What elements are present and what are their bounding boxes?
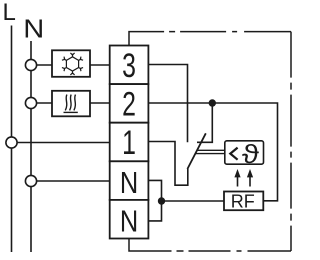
wire heating box to terminal 2: [90, 102, 110, 104]
heating waves icon: [64, 95, 78, 113]
mechanical link to thermostat: [195, 150, 225, 153]
wire L rail: [11, 26, 13, 253]
terminal block cell 3: [110, 46, 149, 85]
terminal block cell N1: [110, 161, 149, 200]
thermostat label: [230, 148, 237, 160]
wire terminal 3 to switch contact a: [148, 65, 187, 143]
junction dot on terminal 2 wire: [209, 99, 216, 106]
svg-text:N: N: [120, 166, 138, 201]
wire N rail: [30, 41, 32, 252]
wire terminal 1 to switch common: [148, 142, 187, 186]
wire N to cooling box: [31, 64, 52, 66]
svg-text:1: 1: [122, 125, 136, 163]
RF receiver box: [224, 192, 263, 211]
svg-text:L: L: [3, 0, 16, 26]
svg-text:N: N: [23, 14, 44, 43]
svg-text:RF: RF: [231, 192, 255, 212]
load box heating: [52, 91, 90, 117]
terminal label 3: [122, 47, 136, 85]
terminal label 1: [122, 125, 136, 163]
wire L to terminal 1: [12, 142, 111, 144]
terminal label N2: [120, 204, 138, 239]
terminal block cell 2: [110, 84, 149, 123]
device boundary dashed bottom: [129, 239, 291, 252]
terminal label N1: [120, 166, 138, 201]
thermostat box U1: [225, 141, 264, 164]
control arrow 1: [234, 169, 240, 187]
wire terminal 2 to right rail: [148, 103, 277, 201]
load box cooling: [52, 50, 90, 77]
svg-text:N: N: [120, 204, 138, 239]
svg-text:2: 2: [122, 86, 136, 124]
svg-text:ϑ: ϑ: [242, 141, 259, 170]
terminal block cell N2: [110, 200, 149, 239]
terminal block cell 1: [110, 123, 149, 162]
wire cooling box to terminal 3: [90, 64, 110, 66]
wire terminal N1 to N2 jumper: [148, 180, 161, 221]
terminal N circle 2: [25, 97, 36, 108]
wire N to terminal N1: [31, 180, 110, 182]
terminal N circle 3: [25, 175, 36, 186]
wire junction to RF box: [162, 200, 225, 202]
wire N to heating box: [31, 102, 52, 104]
control arrow 2: [247, 169, 253, 187]
cooling snowflake icon: [62, 53, 83, 75]
net label N: [23, 14, 44, 43]
switch blade: [187, 133, 205, 169]
terminal label 2: [122, 86, 136, 124]
device boundary dashed top: [129, 32, 291, 46]
svg-text:3: 3: [122, 47, 136, 85]
wire junction to switch contact b: [197, 103, 212, 142]
device boundary dashed right: [290, 32, 292, 251]
terminal L circle: [6, 137, 17, 148]
terminal N circle 1: [25, 59, 36, 70]
junction dot on N jumper: [158, 197, 165, 204]
